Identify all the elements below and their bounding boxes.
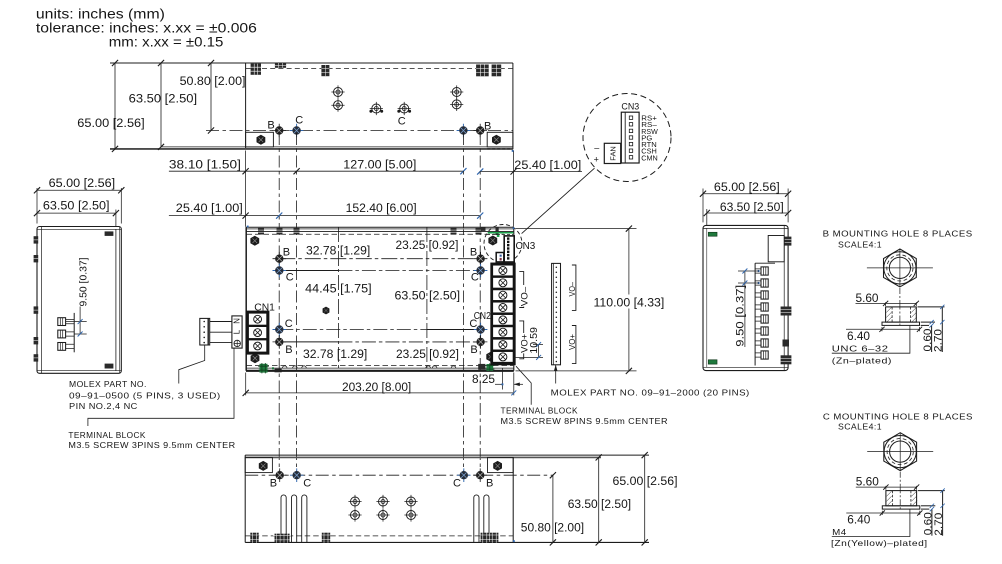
main view corner screws <box>250 236 259 246</box>
bottom view dimension 65.00 [2.56] <box>644 455 646 542</box>
svg-text:VO–: VO– <box>519 287 529 307</box>
bottom view vent slots right <box>474 495 479 542</box>
svg-text:C: C <box>286 271 294 283</box>
top view hole labels <box>267 114 491 132</box>
svg-text:50.80 [2.00]: 50.80 [2.00] <box>180 74 246 88</box>
svg-text:65.00 [2.56]: 65.00 [2.56] <box>49 176 116 190</box>
top view corner screw right <box>492 135 501 145</box>
svg-text:110.00 [4.33]: 110.00 [4.33] <box>594 295 665 309</box>
right side view edge tabs <box>781 237 792 365</box>
svg-text:C: C <box>471 271 479 283</box>
top view hole C left <box>290 124 304 138</box>
svg-text:tolerance: inches: x.xx = ±0.0: tolerance: inches: x.xx = ±0.006 <box>36 20 257 35</box>
output terminal block note text <box>501 406 669 427</box>
svg-text:–: – <box>594 143 599 153</box>
svg-text:[Zn(Yellow)–plated]: [Zn(Yellow)–plated] <box>831 538 928 548</box>
svg-text:32.78 [1.29]: 32.78 [1.29] <box>303 347 367 361</box>
dimension 110.00 [4.33] <box>516 229 637 371</box>
svg-text:units: inches (mm): units: inches (mm) <box>36 6 165 21</box>
svg-text:B: B <box>470 344 477 356</box>
top view dimension 50.80 [2.00] <box>210 63 212 131</box>
B nut thread note <box>832 326 910 353</box>
svg-text:25.40 [1.00]: 25.40 [1.00] <box>514 158 581 172</box>
left side view dimension 65.00 [2.56] <box>37 188 121 224</box>
svg-text:C: C <box>453 477 461 489</box>
svg-text:B MOUNTING HOLE 8 PLACES: B MOUNTING HOLE 8 PLACES <box>823 229 973 239</box>
left side view edge tabs <box>34 236 39 361</box>
svg-text:5.60: 5.60 <box>856 291 879 305</box>
top view dimension 65.00 [2.56] <box>114 63 116 149</box>
top view corner screw left <box>257 135 266 145</box>
svg-text:B: B <box>283 246 290 258</box>
bottom view mounting holes <box>273 468 287 482</box>
svg-text:L: L <box>233 329 242 334</box>
dimension 25.40 [1.00] left <box>169 215 480 217</box>
svg-text:23.25 [0.92]: 23.25 [0.92] <box>396 347 459 361</box>
svg-text:63.50 [2.50]: 63.50 [2.50] <box>568 497 631 511</box>
svg-text:B: B <box>486 477 493 489</box>
svg-text:B: B <box>470 246 477 258</box>
svg-text:2.70: 2.70 <box>933 329 945 352</box>
svg-text:(Zn–plated): (Zn–plated) <box>832 356 892 366</box>
C mounting hole nut detail <box>846 433 945 536</box>
bottom view dimension 50.80 [2.00] <box>552 475 554 542</box>
bottom view dimension 63.50 [2.50] <box>598 457 600 542</box>
svg-text:CN3: CN3 <box>516 241 536 252</box>
svg-text:65.00 [2.56]: 65.00 [2.56] <box>613 474 678 488</box>
leader to Molex 20-pin note <box>555 365 557 384</box>
svg-text:TERMINAL BLOCK: TERMINAL BLOCK <box>501 406 578 416</box>
right side view dimension 65.00 [2.56] <box>703 189 788 223</box>
main view hole row lines <box>279 258 480 260</box>
left side view outline <box>37 227 121 374</box>
svg-text:B: B <box>484 120 491 132</box>
CN3 detail connector <box>621 112 639 163</box>
svg-text:mm: x.xx = ±0.15: mm: x.xx = ±0.15 <box>109 34 224 49</box>
dimension 127.00 [5.00] <box>460 168 466 174</box>
main view mounting holes left <box>273 252 287 266</box>
right side view dimension 63.50 [2.50] <box>707 209 788 225</box>
CN1 input wires <box>210 322 232 343</box>
svg-text:65.00 [2.56]: 65.00 [2.56] <box>77 116 144 130</box>
input terminal block note text <box>68 430 235 450</box>
svg-text:C: C <box>303 477 311 489</box>
C nut thread note <box>832 510 910 537</box>
svg-text:32.78 [1.29]: 32.78 [1.29] <box>306 244 370 258</box>
svg-text:TERMINAL BLOCK: TERMINAL BLOCK <box>68 430 145 440</box>
svg-text:B: B <box>270 477 277 489</box>
svg-text:UNC 6–32: UNC 6–32 <box>832 344 889 354</box>
top view outline <box>110 63 514 149</box>
right side view CN3 side box <box>768 236 784 262</box>
left side view corner clips <box>105 231 114 236</box>
top view hidden edge dashed <box>246 68 513 70</box>
dimensions 0.60 / 2.70 <box>918 306 945 308</box>
connector CN2 terminal block <box>492 264 515 364</box>
right side view outline <box>703 225 788 370</box>
svg-text:10.59: 10.59 <box>529 327 540 354</box>
extension lines between top and main views <box>246 151 514 227</box>
svg-text:09–91–0500 (5 PINS, 3 USED): 09–91–0500 (5 PINS, 3 USED) <box>69 390 221 400</box>
left side view input screws <box>58 313 74 352</box>
output Molex 20-pin connector <box>552 263 561 364</box>
svg-text:N: N <box>233 318 242 324</box>
dimension 10.59 <box>514 345 543 358</box>
svg-text:63.50 [2.50]: 63.50 [2.50] <box>43 199 110 213</box>
right side view output screws <box>755 263 775 365</box>
svg-text:C: C <box>285 318 293 330</box>
bottom view edge screws <box>249 532 260 543</box>
svg-text:63.50 [2.50]: 63.50 [2.50] <box>129 91 197 105</box>
main view outline <box>246 227 514 371</box>
connector CN3 on main view <box>484 225 522 263</box>
svg-text:25.40 [1.00]: 25.40 [1.00] <box>176 201 243 215</box>
svg-text:SCALE4:1: SCALE4:1 <box>838 240 882 250</box>
top view hole B left <box>272 124 286 138</box>
B mounting hole nut detail <box>846 249 945 352</box>
input Molex 5-pin connector <box>200 318 210 345</box>
dimension 152.40 [6.00] <box>477 213 483 219</box>
bottom view centerline <box>245 474 553 476</box>
header note: units and tolerance <box>36 6 257 49</box>
svg-text:127.00 [5.00]: 127.00 [5.00] <box>343 157 416 171</box>
svg-text:C: C <box>398 116 406 128</box>
CN2 VO- bracket <box>519 272 523 308</box>
svg-text:B: B <box>267 120 274 132</box>
svg-text:CN1: CN1 <box>254 303 275 314</box>
svg-text:VO–: VO– <box>568 282 577 297</box>
bottom view center holes <box>348 495 361 508</box>
svg-text:M3.5 SCREW 3PINS 9.5mm CENTER: M3.5 SCREW 3PINS 9.5mm CENTER <box>68 440 235 450</box>
FAN connector in balloon <box>604 143 620 163</box>
svg-text:203.20 [8.00]: 203.20 [8.00] <box>342 380 411 394</box>
dimension 203.20 [8.00] <box>246 373 514 396</box>
top view corner bracket boxes <box>246 132 274 147</box>
top view dimension 63.50 [2.50] <box>160 63 162 147</box>
svg-text:FAN: FAN <box>608 146 617 161</box>
top view dashed segment bottom right <box>487 148 513 150</box>
svg-text:M4: M4 <box>832 527 847 537</box>
dimension 5.60 <box>856 302 917 306</box>
svg-text:63.50 [2.50]: 63.50 [2.50] <box>720 200 784 214</box>
long mounting-hole column centerlines <box>279 133 480 475</box>
top view hole B right <box>473 124 487 138</box>
Molex 20-pin VO+ bracket <box>572 326 576 364</box>
leader to output terminal block note <box>516 366 531 405</box>
svg-text:C: C <box>295 114 303 126</box>
dimension 8.25 <box>495 369 523 390</box>
Molex 5-pin note text <box>69 379 221 411</box>
svg-text:SCALE4:1: SCALE4:1 <box>838 422 882 432</box>
svg-text:63.50 [2.50]: 63.50 [2.50] <box>395 288 461 302</box>
svg-text:6.40: 6.40 <box>847 329 870 343</box>
svg-text:9.50 [0.37]: 9.50 [0.37] <box>735 285 747 347</box>
svg-text:65.00 [2.56]: 65.00 [2.56] <box>714 180 780 194</box>
CN2 VO+ bracket <box>519 321 523 359</box>
main view dashed inner edges <box>247 233 505 235</box>
svg-text:PIN NO.2,4 NC: PIN NO.2,4 NC <box>69 401 138 411</box>
small blue reference ticks <box>247 150 515 542</box>
main view interior extension lines <box>337 227 339 368</box>
right side view dimension 9.50 [0.37] <box>738 271 759 347</box>
svg-text:9.50 [0.37]: 9.50 [0.37] <box>79 257 90 306</box>
top view chassis screw holes <box>331 85 344 98</box>
CN3 detail pin names <box>641 114 658 163</box>
main view center stud <box>323 307 330 315</box>
Molex 20-pin VO- bracket <box>572 265 576 310</box>
svg-text:CMN: CMN <box>641 153 658 162</box>
svg-text:8.25: 8.25 <box>472 372 495 386</box>
svg-text:C MOUNTING HOLE 8 PLACES: C MOUNTING HOLE 8 PLACES <box>823 412 973 422</box>
svg-text:MOLEX PART NO. 09–91–2000 (20: MOLEX PART NO. 09–91–2000 (20 PINS) <box>551 388 750 398</box>
dimension 25.40 [1.00] right <box>480 171 582 173</box>
svg-text:CN3: CN3 <box>621 101 639 112</box>
svg-text:MOLEX PART NO.: MOLEX PART NO. <box>69 379 147 389</box>
svg-text:44.45 [1.75]: 44.45 [1.75] <box>305 282 371 296</box>
CN1 terminal name strip N L PE <box>232 316 242 348</box>
left side view dimension 9.50 [0.37] <box>66 307 87 335</box>
top view mounting hole centerline <box>206 130 513 132</box>
svg-text:M3.5 SCREW 8PINS 9.5mm CENTER: M3.5 SCREW 8PINS 9.5mm CENTER <box>501 416 669 426</box>
top view hole C right <box>457 124 471 138</box>
connector CN1 terminal block <box>247 312 268 354</box>
main view hole labels <box>283 246 479 356</box>
bottom view outline <box>245 455 649 542</box>
svg-text:152.40 [6.00]: 152.40 [6.00] <box>346 201 417 215</box>
left side view dimension 63.50 [2.50] <box>37 210 116 227</box>
top view edge fastener marks <box>251 63 502 76</box>
svg-text:VO+: VO+ <box>568 334 577 350</box>
svg-text:23.25 [0.92]: 23.25 [0.92] <box>396 238 459 252</box>
bottom view vent slots left <box>281 495 489 542</box>
main view bottom edge marks <box>258 363 494 373</box>
nut side view <box>886 307 917 322</box>
svg-text:38.10 [1.50]: 38.10 [1.50] <box>169 157 241 171</box>
main view mounting holes right <box>474 252 488 266</box>
top view C-type nuts center <box>369 102 383 115</box>
leader to input terminal block note <box>88 348 234 426</box>
svg-text:CN2: CN2 <box>474 311 491 322</box>
bottom view corner screws <box>259 461 268 471</box>
CN3 detail balloon <box>583 94 671 182</box>
bottom view hole labels <box>270 477 494 489</box>
svg-text:B: B <box>285 344 292 356</box>
dimension 38.10 [1.50] <box>169 170 464 172</box>
dimension 6.40 <box>846 327 920 331</box>
svg-text:+: + <box>594 154 599 164</box>
leader from CN3 to detail balloon <box>522 168 595 233</box>
main view top edge fastener marks <box>258 227 499 235</box>
right side view corner marks green <box>708 232 717 364</box>
svg-text:50.80 [2.00]: 50.80 [2.00] <box>521 521 584 535</box>
leader to Molex 5-pin note <box>179 345 205 384</box>
